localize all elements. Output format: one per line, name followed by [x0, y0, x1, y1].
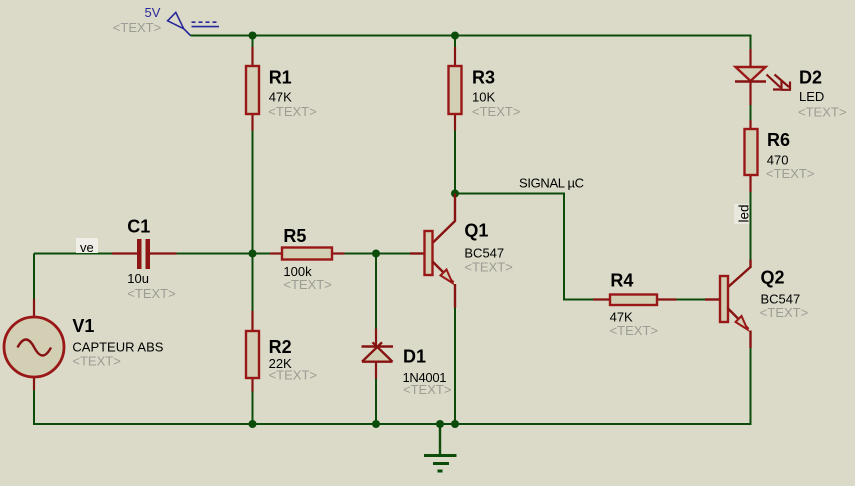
svg-text:LED: LED — [799, 89, 824, 104]
svg-text:ve: ve — [80, 240, 94, 255]
resistor R1 — [246, 47, 259, 131]
net label ve background — [76, 238, 98, 253]
svg-text:R4: R4 — [610, 271, 633, 291]
svg-text:10K: 10K — [472, 90, 495, 105]
junction dot R5-D1 node — [372, 250, 380, 258]
transistor Q1 — [410, 194, 455, 308]
svg-text:R2: R2 — [269, 337, 292, 357]
junction dot ground stem — [436, 420, 444, 428]
wire signal to R4 — [455, 194, 593, 300]
svg-text:<TEXT>: <TEXT> — [798, 105, 846, 120]
wire left column to C1 — [34, 253, 112, 255]
svg-text:<TEXT>: <TEXT> — [113, 20, 161, 35]
junction dot R2 bottom — [249, 420, 257, 428]
svg-text:CAPTEUR ABS: CAPTEUR ABS — [72, 340, 163, 355]
wire Q1 emitter down — [454, 307, 456, 424]
wire R6 to Q2 collector — [750, 192, 752, 260]
source V1 — [4, 299, 64, 390]
junction dot C1-R5-R2 node — [249, 250, 257, 258]
junction dot top R3 — [451, 32, 459, 40]
net label led background — [734, 204, 749, 224]
svg-text:D1: D1 — [403, 347, 426, 367]
power terminal 5V symbol — [168, 12, 219, 35]
wire R4 to Q2 base — [676, 299, 706, 301]
wire D1 bottom — [375, 378, 377, 424]
wire top rail — [191, 36, 751, 50]
wire R3 top stub — [454, 36, 456, 48]
wire V1 top column — [33, 254, 35, 300]
svg-text:BC547: BC547 — [464, 246, 504, 261]
svg-text:led: led — [737, 204, 752, 222]
resistor R5 — [270, 248, 345, 260]
wire node to Q1 base — [376, 253, 410, 255]
wire D1 top — [375, 254, 377, 330]
svg-text:V1: V1 — [72, 316, 94, 336]
svg-text:<TEXT>: <TEXT> — [464, 260, 512, 275]
svg-text:<TEXT>: <TEXT> — [268, 104, 316, 119]
svg-text:<TEXT>: <TEXT> — [283, 277, 331, 292]
wire R2 bottom — [252, 391, 254, 424]
junction dot signal node — [451, 190, 459, 198]
svg-text:R1: R1 — [269, 68, 292, 88]
wire V1 bottom to rail — [33, 390, 35, 425]
svg-text:R3: R3 — [472, 68, 495, 88]
svg-text:10u: 10u — [127, 271, 149, 286]
wire node to R5 left — [253, 253, 271, 255]
wire C1 right to node — [176, 253, 253, 255]
svg-text:<TEXT>: <TEXT> — [269, 367, 317, 382]
wire R3 bottom to signal node — [454, 130, 456, 194]
junction dot top R1 — [249, 32, 257, 40]
wire bottom rail — [33, 423, 752, 425]
svg-text:SIGNAL µC: SIGNAL µC — [519, 176, 584, 191]
svg-text:R6: R6 — [767, 130, 790, 150]
resistor R3 — [449, 47, 462, 131]
resistor R4 — [593, 295, 677, 306]
svg-text:5V: 5V — [145, 5, 161, 20]
svg-text:<TEXT>: <TEXT> — [127, 286, 175, 301]
diode D2 LED — [735, 49, 790, 105]
diode D1 — [362, 329, 394, 379]
svg-text:D2: D2 — [799, 67, 822, 87]
wire R1 bottom to node — [252, 130, 254, 254]
svg-text:47K: 47K — [269, 90, 292, 105]
resistor R6 — [745, 120, 758, 192]
svg-text:<TEXT>: <TEXT> — [472, 104, 520, 119]
wire R1 top stub — [252, 36, 254, 48]
ground — [424, 424, 457, 471]
svg-text:Q2: Q2 — [761, 268, 785, 288]
wire R5 right to node — [344, 253, 376, 255]
junction dot D1 bottom — [372, 420, 380, 428]
svg-text:<TEXT>: <TEXT> — [610, 323, 658, 338]
svg-text:<TEXT>: <TEXT> — [403, 382, 451, 397]
svg-text:C1: C1 — [127, 216, 150, 236]
wire LED to R6 — [750, 104, 752, 121]
svg-text:<TEXT>: <TEXT> — [766, 166, 814, 181]
svg-text:<TEXT>: <TEXT> — [72, 354, 120, 369]
svg-text:R5: R5 — [283, 226, 306, 246]
junction dot Q1 emitter bottom — [451, 420, 459, 428]
transistor Q2 — [705, 260, 751, 349]
resistor R2 — [246, 311, 259, 392]
capacitor C1 — [112, 239, 177, 269]
svg-text:<TEXT>: <TEXT> — [760, 305, 808, 320]
wire R2 top — [252, 254, 254, 312]
svg-text:Q1: Q1 — [464, 221, 488, 241]
wire Q2 emitter down — [750, 348, 752, 425]
